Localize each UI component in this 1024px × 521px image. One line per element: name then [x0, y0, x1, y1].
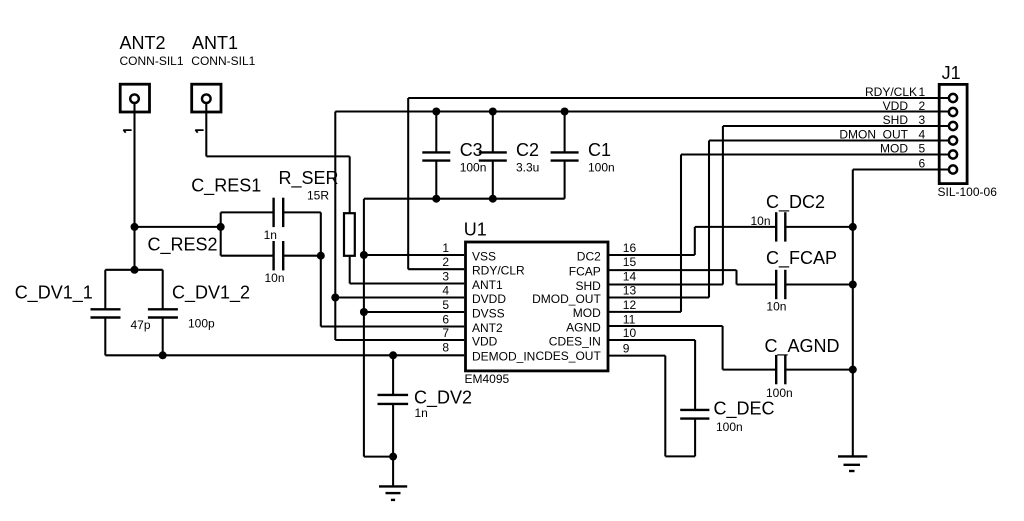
wire chip pin 12 MOD	[608, 311, 681, 313]
J1 pin numbers	[919, 85, 926, 171]
wire chip pin 4	[335, 296, 464, 298]
J1 pin circles	[949, 94, 957, 174]
wire chip pin 7	[335, 339, 464, 341]
svg-text:C_RES2: C_RES2	[148, 235, 218, 256]
svg-text:MOD: MOD	[880, 142, 908, 156]
capacitor C_DV1_2	[148, 270, 250, 356]
wire VSS rail under caps	[364, 198, 565, 200]
capacitor C2	[479, 112, 540, 199]
node ANT2/C_DV1 junction	[131, 266, 139, 274]
wire RDY/CLK rail	[408, 97, 948, 99]
node C_AGND right on ground rail	[849, 366, 857, 374]
svg-text:MOD: MOD	[573, 306, 601, 320]
pin number 1 of ANT1	[195, 130, 203, 133]
svg-text:10n: 10n	[766, 300, 786, 314]
node ANT2/C_RES junction	[131, 223, 139, 231]
svg-text:1: 1	[442, 241, 449, 255]
node C_DV2 top on DEMOD rail	[389, 351, 397, 359]
wire SHD to J1	[723, 125, 949, 127]
svg-text:C1: C1	[588, 140, 611, 160]
svg-text:6: 6	[442, 313, 449, 327]
wire ANT1 vertical	[205, 103, 207, 156]
svg-text:C2: C2	[516, 140, 539, 160]
svg-text:DVSS: DVSS	[472, 306, 505, 320]
svg-text:3.3u: 3.3u	[516, 161, 539, 175]
svg-text:DMON_OUT: DMON_OUT	[839, 128, 908, 142]
wire chip pin 3	[350, 282, 464, 284]
capacitor C_RES1	[191, 176, 321, 243]
svg-text:C_RES1: C_RES1	[191, 176, 261, 197]
ground (middle)	[379, 486, 407, 500]
node C_DV1_2 bottom junction	[159, 351, 167, 359]
svg-text:15: 15	[623, 255, 637, 269]
svg-text:U1: U1	[464, 220, 487, 240]
svg-text:13: 13	[623, 284, 637, 298]
svg-text:2: 2	[919, 99, 926, 113]
svg-text:11: 11	[623, 313, 636, 327]
wire DMON_OUT to J1	[709, 139, 949, 141]
svg-text:CONN-SIL1: CONN-SIL1	[120, 54, 184, 68]
svg-text:2: 2	[442, 255, 449, 269]
wire DC2 up	[694, 227, 696, 255]
svg-text:7: 7	[442, 326, 449, 340]
wire SHD vertical	[722, 126, 724, 285]
svg-text:8: 8	[442, 341, 449, 355]
wire chip pin 9 CDES_OUT	[608, 355, 665, 357]
svg-text:4: 4	[442, 284, 449, 298]
svg-text:3: 3	[919, 113, 926, 127]
svg-text:16: 16	[623, 241, 637, 255]
svg-text:RDY/CLK: RDY/CLK	[865, 85, 917, 99]
svg-text:C_DV1_2: C_DV1_2	[172, 283, 250, 304]
capacitor C_DV2	[378, 355, 473, 456]
svg-text:AGND: AGND	[566, 320, 601, 334]
node VDD at pin 4	[331, 294, 339, 302]
svg-text:DMOD_OUT: DMOD_OUT	[532, 292, 601, 306]
svg-text:EM4095: EM4095	[465, 372, 510, 386]
wire C_RES right node vertical down to ANT2 pin	[320, 212, 322, 326]
svg-text:100n: 100n	[588, 161, 615, 175]
node C1 top	[561, 108, 569, 116]
wire VDD drop to pin 4 / pin 7	[334, 112, 336, 341]
svg-text:J1: J1	[942, 63, 961, 83]
pin number 1 of ANT2	[123, 130, 131, 133]
capacitor C3	[422, 112, 486, 199]
wire AGND down	[722, 326, 724, 370]
svg-text:CONN-SIL1: CONN-SIL1	[191, 54, 255, 68]
svg-text:C_DEC: C_DEC	[714, 399, 775, 420]
pin numbers right side of U1	[623, 241, 637, 356]
wire J1 pin 6	[853, 168, 949, 170]
svg-text:CDES_OUT: CDES_OUT	[535, 349, 601, 363]
wire RDY/CLK drop to pin 2	[407, 98, 409, 269]
wire C_DEC bottom loop	[665, 455, 695, 457]
wire chip pin 15 FCAP	[608, 269, 736, 271]
wire ANT2 to C_RES node	[135, 226, 221, 228]
pin numbers left side of U1	[442, 241, 449, 355]
pin labels right side of U1	[532, 249, 601, 363]
node C_DV2 bottom	[389, 453, 397, 461]
svg-text:1n: 1n	[415, 406, 428, 420]
wire VSS drop	[363, 199, 365, 457]
svg-text:RDY/CLR: RDY/CLR	[472, 264, 525, 278]
svg-text:FCAP: FCAP	[569, 264, 601, 278]
svg-text:3: 3	[442, 270, 449, 284]
wire chip pin 1	[364, 254, 464, 256]
svg-text:12: 12	[623, 298, 637, 312]
wire MOD to J1	[681, 153, 949, 155]
capacitor C_AGND	[723, 336, 853, 400]
svg-text:C_DC2: C_DC2	[766, 192, 825, 213]
wire chip pin 11 AGND	[608, 325, 722, 327]
svg-text:100n: 100n	[460, 161, 487, 175]
svg-text:DEMOD_IN: DEMOD_IN	[472, 350, 535, 364]
svg-text:10n: 10n	[265, 271, 285, 285]
svg-text:100n: 100n	[716, 420, 743, 434]
capacitor C_DV1_1	[15, 270, 151, 356]
svg-text:100p: 100p	[188, 317, 215, 331]
node C2 bottom	[489, 195, 497, 203]
wire chip pin 10 CDES_IN	[608, 339, 695, 341]
svg-text:ANT2: ANT2	[472, 321, 503, 335]
svg-text:14: 14	[623, 270, 637, 284]
svg-text:47p: 47p	[131, 318, 151, 332]
wire chip pin 5	[364, 311, 464, 313]
wire VSS to C_DV2 bottom	[364, 456, 393, 458]
node C_FCAP right on ground rail	[849, 281, 857, 289]
wire ANT2 vertical	[133, 103, 135, 270]
wire to ground	[392, 457, 394, 487]
capacitor C1	[551, 112, 615, 199]
ground (right)	[838, 456, 867, 471]
capacitor C_RES2	[148, 235, 321, 286]
svg-text:10: 10	[623, 326, 637, 340]
node C3 bottom	[432, 195, 440, 203]
node C3 top	[432, 108, 440, 116]
svg-text:SHD: SHD	[575, 279, 601, 293]
node C_DC2 right on ground rail	[849, 223, 857, 231]
IC U1 EM4095 chip body	[464, 220, 608, 387]
svg-text:CDES_IN: CDES_IN	[549, 334, 601, 348]
svg-text:9: 9	[623, 342, 630, 356]
node VSS at pin 1	[360, 251, 368, 259]
svg-text:ANT2: ANT2	[120, 33, 166, 53]
svg-text:4: 4	[919, 128, 926, 142]
svg-text:VSS: VSS	[472, 249, 496, 263]
capacitor C_DC2	[695, 192, 853, 242]
wire chip pin 2	[408, 268, 464, 270]
node C_RES left	[217, 223, 225, 231]
net labels at J1	[839, 85, 917, 156]
wire VDD rail	[335, 110, 948, 112]
wire MOD vertical	[680, 155, 682, 312]
svg-text:SHD: SHD	[883, 113, 909, 127]
svg-text:ANT1: ANT1	[192, 33, 238, 53]
svg-text:C_AGND: C_AGND	[765, 336, 840, 357]
wire DMON_OUT vertical	[708, 141, 710, 298]
svg-text:ANT1: ANT1	[472, 278, 503, 292]
wire CDES_OUT vertical	[664, 356, 666, 457]
wire ground rail right	[852, 170, 854, 457]
wire chip pin 16 DC2	[608, 254, 695, 256]
wire C_DV1 top rail	[105, 269, 162, 271]
svg-text:6: 6	[919, 157, 926, 171]
svg-text:R_SER: R_SER	[279, 168, 339, 189]
svg-text:5: 5	[442, 298, 449, 312]
svg-text:C3: C3	[460, 140, 483, 160]
wire chip pin 13 DMOD_OUT	[608, 296, 709, 298]
wire chip pin 6	[321, 325, 464, 327]
svg-text:1n: 1n	[264, 228, 277, 242]
node C_RES right	[317, 252, 325, 260]
svg-text:DVDD: DVDD	[472, 292, 506, 306]
wire chip pin 14 SHD	[608, 283, 723, 285]
svg-text:VDD: VDD	[472, 334, 498, 348]
svg-text:SIL-100-06: SIL-100-06	[938, 185, 998, 199]
connector ANT2	[120, 33, 184, 112]
wire C_RES left node vertical	[220, 212, 222, 255]
svg-text:VDD: VDD	[883, 99, 909, 113]
connector ANT1	[191, 33, 255, 112]
svg-text:C_DV1_1: C_DV1_1	[15, 283, 93, 304]
svg-text:C_FCAP: C_FCAP	[766, 248, 837, 269]
node VSS at pin 5	[360, 308, 368, 316]
pin labels left side of U1	[472, 249, 535, 363]
wire FCAP jog down	[735, 270, 737, 284]
svg-text:1: 1	[919, 85, 926, 99]
svg-text:DC2: DC2	[577, 249, 601, 263]
wire DEMOD_IN rail (pin 8)	[105, 354, 464, 356]
connector J1	[938, 63, 998, 199]
resistor R_SER	[279, 156, 355, 283]
svg-text:15R: 15R	[307, 189, 329, 203]
capacitor C_DEC	[680, 340, 774, 456]
wire ANT1 horizontal to R_SER	[206, 155, 349, 157]
node C2 top	[489, 108, 497, 116]
svg-text:5: 5	[919, 142, 926, 156]
capacitor C_FCAP	[737, 248, 853, 314]
